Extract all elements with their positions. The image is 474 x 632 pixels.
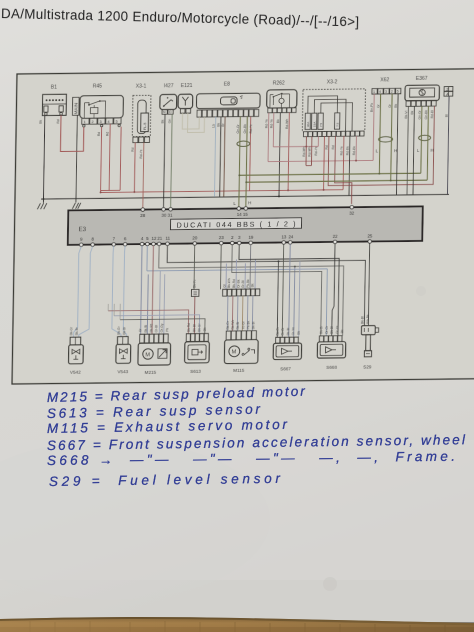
wires X3-2 down xyxy=(306,137,312,166)
svg-text:Rd-Ye: Rd-Ye xyxy=(269,119,273,128)
svg-text:20: 20 xyxy=(192,236,198,241)
wire B1 red to R45 xyxy=(60,115,84,151)
svg-text:Bk: Bk xyxy=(161,119,165,123)
svg-text:E121: E121 xyxy=(181,83,193,89)
svg-text:X3-1: X3-1 xyxy=(136,83,147,89)
svg-text:Lb: Lb xyxy=(212,124,216,128)
svg-text:Bk-Ye: Bk-Ye xyxy=(193,279,197,288)
svg-text:H: H xyxy=(430,148,433,153)
svg-text:Bk: Bk xyxy=(251,283,255,287)
solenoid valve V542 xyxy=(68,337,83,364)
fuse box X3-2 xyxy=(302,89,365,137)
svg-text:Bk-Bl: Bk-Bl xyxy=(251,321,255,329)
wires connector to M115 xyxy=(227,296,253,331)
svg-text:E367: E367 xyxy=(416,76,428,82)
svg-text:Pk: Pk xyxy=(165,328,169,332)
svg-text:Bk-Gr: Bk-Gr xyxy=(69,326,73,335)
wire pin21 feeder xyxy=(158,244,344,338)
svg-text:30 31: 30 31 xyxy=(161,213,173,218)
preload motor M215 xyxy=(138,334,171,365)
wires X62 down xyxy=(396,94,398,195)
svg-text:Bk-Rd: Bk-Rd xyxy=(232,279,236,288)
svg-text:2: 2 xyxy=(391,90,393,94)
svg-text:S29: S29 xyxy=(363,365,372,370)
svg-text:S667: S667 xyxy=(280,366,291,371)
svg-text:Bk-Wh: Bk-Wh xyxy=(231,320,235,330)
wire connector A down xyxy=(447,96,449,194)
svg-text:Bk-Rd: Bk-Rd xyxy=(149,323,153,332)
svg-text:Wh-Bk: Wh-Bk xyxy=(366,314,370,324)
wire pin2 to S668 xyxy=(231,244,322,337)
svg-text:Bk: Bk xyxy=(39,120,43,124)
wires pins 23,19 to connector above M115 xyxy=(220,245,223,289)
svg-text:Bk-Bl: Bk-Bl xyxy=(236,322,240,330)
svg-text:Bl: Bl xyxy=(445,114,449,117)
svg-text:R45: R45 xyxy=(93,84,102,90)
wire pin22 to S668 xyxy=(332,244,335,336)
wire pin20 to S613 via inline connector xyxy=(193,245,196,289)
svg-text:Bk-Gr: Bk-Gr xyxy=(276,326,280,335)
svg-text:Gn-Gr: Gn-Gr xyxy=(236,123,240,133)
wire pin8 to V542 xyxy=(79,246,93,337)
acceleration sensor S668 xyxy=(317,336,346,359)
wire pin3 to S668 xyxy=(238,244,340,337)
svg-text:Rd-Ye: Rd-Ye xyxy=(314,146,318,155)
hands-free unit E8 xyxy=(196,93,260,117)
svg-text:Pk-Bk: Pk-Bk xyxy=(246,320,250,329)
svg-text:Bk-Bl: Bk-Bl xyxy=(360,316,364,324)
svg-text:Gr-Bl: Gr-Bl xyxy=(241,280,245,288)
wires E367 down to ground xyxy=(407,106,408,195)
svg-text:M: M xyxy=(145,352,150,358)
svg-text:Bk: Bk xyxy=(340,329,344,333)
svg-text:M115: M115 xyxy=(233,368,245,373)
svg-text:Bk-Gr: Bk-Gr xyxy=(198,323,202,332)
svg-text:28: 28 xyxy=(140,213,146,218)
svg-text:X62: X62 xyxy=(380,77,389,83)
svg-text:Rd-Ye: Rd-Ye xyxy=(340,146,344,155)
wires R262 down xyxy=(267,113,270,162)
svg-text:Ye-Gr: Ye-Gr xyxy=(241,320,245,329)
svg-text:1: 1 xyxy=(373,90,375,94)
wire pin9 to V542 xyxy=(74,247,82,338)
svg-text:3: 3 xyxy=(385,90,387,94)
svg-text:Bn-Pk: Bn-Pk xyxy=(370,103,374,112)
svg-text:Rd-Wh: Rd-Wh xyxy=(302,146,306,156)
svg-text:I427: I427 xyxy=(164,83,174,89)
svg-text:Rd: Rd xyxy=(97,132,101,136)
svg-text:Rd-Wh: Rd-Wh xyxy=(285,118,289,128)
svg-text:Bk: Bk xyxy=(394,103,398,107)
svg-text:Bk-Gr: Bk-Gr xyxy=(117,326,121,335)
svg-text:FL-5: FL-5 xyxy=(143,123,147,130)
fuse holder X3-1 xyxy=(132,95,151,142)
ECU top pins xyxy=(141,205,354,211)
svg-text:21: 21 xyxy=(157,236,163,241)
svg-text:7.5: 7.5 xyxy=(336,122,340,127)
svg-text:19: 19 xyxy=(248,235,254,240)
svg-text:Gn: Gn xyxy=(168,119,172,124)
svg-text:Gr-Bl: Gr-Bl xyxy=(155,325,159,333)
svg-text:13: 13 xyxy=(281,235,287,240)
svg-text:Rd-Bk: Rd-Bk xyxy=(352,146,356,156)
svg-text:24: 24 xyxy=(288,234,294,239)
svg-text:B1: B1 xyxy=(51,85,57,91)
svg-text:Bk-Vi: Bk-Vi xyxy=(404,110,408,118)
wire pin11 long feeder to S29 xyxy=(166,243,366,328)
fuel level sensor S29 xyxy=(361,325,379,356)
svg-text:E3: E3 xyxy=(78,226,86,233)
table wood at bottom xyxy=(0,617,474,632)
wire pin6 to V543 xyxy=(123,246,128,337)
battery B1 xyxy=(42,94,66,115)
CAN pair E367 xyxy=(421,106,422,173)
wires R45 red feeds xyxy=(101,124,122,193)
red supply bus xyxy=(101,190,343,193)
wire X3-1 red xyxy=(133,143,136,192)
inline connector (Bk-Ye) xyxy=(191,289,199,296)
ground symbol under R45 xyxy=(72,203,80,209)
sensor E367 xyxy=(405,85,440,106)
ECU bottom pins xyxy=(79,240,371,247)
svg-text:Rd-Bk: Rd-Bk xyxy=(346,146,350,156)
svg-text:4: 4 xyxy=(379,90,381,94)
svg-text:H: H xyxy=(248,200,251,205)
svg-text:Gn-Gr: Gn-Gr xyxy=(418,109,422,119)
wire pin7 to V543 xyxy=(112,246,123,337)
wires pins 4 5 12 to M215 xyxy=(141,246,142,334)
CAN L/H buses xyxy=(239,173,421,175)
exhaust servo motor M115 xyxy=(224,331,258,364)
svg-text:Or-Bk: Or-Bk xyxy=(237,279,241,288)
ground symbol under B1 xyxy=(37,203,46,209)
svg-text:Bk-Gr: Bk-Gr xyxy=(319,325,323,334)
switch I427 xyxy=(160,94,177,114)
svg-text:25: 25 xyxy=(367,234,373,239)
svg-text:DUCATI 044 BBS ( 1 / 2 ): DUCATI 044 BBS ( 1 / 2 ) xyxy=(176,219,295,229)
svg-text:15A: 15A xyxy=(313,122,317,127)
svg-text:32: 32 xyxy=(349,211,355,216)
svg-text:Bk: Bk xyxy=(410,110,414,114)
connector above M115 xyxy=(223,289,260,296)
solenoid valve V543 xyxy=(116,337,131,364)
dark red link to pin 32 xyxy=(334,136,352,204)
svg-text:V543: V543 xyxy=(117,369,128,374)
svg-text:Bk-Rd: Bk-Rd xyxy=(187,323,191,332)
svg-text:E8: E8 xyxy=(224,82,230,88)
svg-text:M: M xyxy=(232,350,237,356)
svg-text:Bk-Br: Bk-Br xyxy=(122,326,126,335)
CAN pair E8 to pins 14 15 xyxy=(239,117,240,209)
svg-text:30A: 30A xyxy=(306,122,310,127)
svg-text:Rd: Rd xyxy=(56,119,60,123)
wires E8 down xyxy=(214,117,215,197)
ground bus xyxy=(41,194,449,199)
svg-text:S613: S613 xyxy=(190,369,201,374)
svg-text:Or-Gr: Or-Gr xyxy=(325,325,329,334)
acceleration sensor S667 xyxy=(273,337,302,360)
svg-text:Gr-Ye: Gr-Ye xyxy=(291,327,295,335)
svg-text:Or-Gr: Or-Gr xyxy=(281,326,285,335)
svg-text:X3-2: X3-2 xyxy=(327,79,338,85)
relay R45 (MAIN) xyxy=(72,95,123,127)
svg-text:Rd-Wh: Rd-Wh xyxy=(308,146,312,156)
pale antenna wires E121-E8 xyxy=(182,113,199,129)
wires I427 to pins 30 31 xyxy=(164,114,166,209)
svg-text:12: 12 xyxy=(151,236,157,241)
CAN junction dots xyxy=(238,173,392,184)
svg-text:23: 23 xyxy=(219,235,225,240)
svg-text:22: 22 xyxy=(333,234,339,239)
svg-text:Bk-Br: Bk-Br xyxy=(75,326,79,335)
svg-text:Rd-Bl: Rd-Bl xyxy=(430,110,434,119)
junction dots red/black xyxy=(100,145,358,194)
svg-text:Pk-Bk: Pk-Bk xyxy=(246,279,250,288)
svg-text:Gn-Bk: Gn-Bk xyxy=(243,124,247,134)
pink link buses xyxy=(273,137,318,147)
svg-text:14 15: 14 15 xyxy=(237,212,249,217)
stair wires to S613 xyxy=(108,310,189,335)
connector A (2-pin) xyxy=(444,87,453,97)
wire X3-1 red-yellow to pin 28 xyxy=(143,143,144,210)
wire pin25 to S29 xyxy=(368,243,369,325)
svg-text:5: 5 xyxy=(397,90,399,94)
svg-text:Rd: Rd xyxy=(325,145,329,149)
svg-text:Bk: Bk xyxy=(203,327,207,331)
small wire colour labels top xyxy=(38,102,449,160)
antenna E121 xyxy=(178,94,193,113)
ECU E3 DUCATI 044 BBS xyxy=(68,205,423,247)
svg-text:Bk-Bl: Bk-Bl xyxy=(330,326,334,334)
wire B1 black to ground xyxy=(43,116,44,203)
svg-text:V542: V542 xyxy=(70,370,81,375)
svg-text:Bk-Bl: Bk-Bl xyxy=(192,324,196,332)
svg-text:Rd-Ye: Rd-Ye xyxy=(264,119,268,128)
svg-text:Rd: Rd xyxy=(131,147,135,151)
svg-text:Rd-Ye: Rd-Ye xyxy=(249,124,253,133)
svg-text:R262: R262 xyxy=(273,80,285,86)
relay R262 xyxy=(267,90,297,113)
svg-text:2: 2 xyxy=(446,88,448,92)
bottom wire colour labels xyxy=(69,277,370,338)
svg-text:S668: S668 xyxy=(326,365,337,370)
svg-text:M215: M215 xyxy=(145,370,157,375)
faint smudge on paper xyxy=(323,577,337,591)
handwritten notes in blue ink xyxy=(47,384,466,489)
svg-text:Or-Gy: Or-Gy xyxy=(160,323,164,332)
CAN pair X62 xyxy=(379,94,380,174)
svg-text:Rd-Ye: Rd-Ye xyxy=(139,149,143,158)
svg-text:MAIN: MAIN xyxy=(73,103,78,115)
svg-text:Bk: Bk xyxy=(276,119,280,123)
svg-text:Gn-Bk: Gn-Bk xyxy=(424,110,428,120)
svg-text:Bk-Wh: Bk-Wh xyxy=(227,278,231,288)
svg-text:Bk-Bl: Bk-Bl xyxy=(286,327,290,335)
svg-text:Rd: Rd xyxy=(105,132,109,136)
svg-text:Rd: Rd xyxy=(331,145,335,149)
svg-text:Bk: Bk xyxy=(297,331,301,335)
connector X62 xyxy=(372,88,401,94)
svg-text:Bk-Gr: Bk-Gr xyxy=(226,320,230,329)
svg-text:7.5: 7.5 xyxy=(319,123,323,128)
schematic frame xyxy=(12,69,474,384)
svg-text:Gr-Ye: Gr-Ye xyxy=(335,325,339,333)
svg-text:Bk-Bl: Bk-Bl xyxy=(144,325,148,333)
wires pins 13,24 to S667 xyxy=(282,244,283,337)
suspension sensor S613 xyxy=(185,333,210,363)
svg-text:11: 11 xyxy=(165,236,170,241)
wire R45 ground xyxy=(76,115,77,202)
